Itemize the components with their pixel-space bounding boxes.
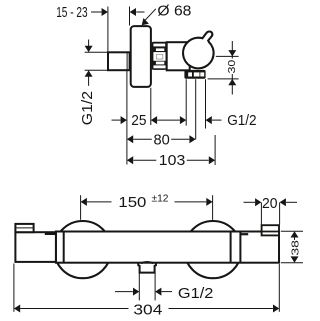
- leader line Ø 68: [144, 9, 156, 21]
- extension lines outlet thread: [185, 79, 187, 125]
- dim 25: [112, 119, 121, 121]
- svg-text:G1/2: G1/2: [178, 286, 214, 302]
- svg-text:304: 304: [133, 303, 162, 319]
- svg-text:±12: ±12: [152, 193, 169, 205]
- dim 103: [127, 156, 133, 164]
- dim 80: [127, 135, 133, 143]
- dim G1/2 left: extension lines: [85, 51, 107, 53]
- dim 304: extension lines: [13, 264, 15, 312]
- dim G1/2 bottom: extension lines: [138, 273, 140, 301]
- bar body: [56, 232, 279, 263]
- dim 15-23 left shaft and arrow: [91, 11, 102, 13]
- bar top edge across fitting: [261, 231, 280, 233]
- handle grip tab: [15, 224, 33, 232]
- handle index dash right: [240, 233, 248, 235]
- dim G1/2 left: lower line + up arrow: [85, 70, 93, 76]
- dim 30: line + arrows: [231, 41, 233, 56]
- escutcheon plate (rosette, side): [131, 26, 151, 87]
- dim 15-23 left extension line: [107, 7, 109, 52]
- dim 150 line + arrows: [81, 198, 87, 206]
- dim 15-23 right arrow and shaft: [130, 8, 136, 16]
- svg-text:G1/2: G1/2: [227, 113, 256, 129]
- extension line left shared (25/80/103): [126, 71, 128, 165]
- leader arrowhead Ø 68: [142, 18, 149, 25]
- handle circle with tab: [183, 31, 214, 68]
- temperature handle (left): [15, 232, 56, 262]
- svg-text:30: 30: [227, 59, 238, 73]
- dim 20 arrows + text: [244, 201, 256, 203]
- knurled union nut: [152, 42, 167, 70]
- svg-text:Ø 68: Ø 68: [157, 4, 191, 20]
- left rosette circle: [54, 221, 111, 278]
- shared shaft between 25 and G1/2: [157, 119, 180, 121]
- outlet nut (ribbed): [184, 70, 205, 79]
- svg-text:150: 150: [118, 195, 146, 211]
- inlet square inner edge: [126, 52, 128, 70]
- svg-text:G1/2: G1/2: [80, 91, 96, 125]
- inlet square (S-union): [108, 52, 130, 70]
- svg-text:103: 103: [159, 153, 186, 169]
- dim 38 line + arrows: [291, 231, 299, 237]
- handle index dash left: [45, 233, 56, 235]
- escutcheon seam left: [63, 232, 65, 263]
- dim 150 +-12: extension lines: [80, 195, 82, 220]
- svg-text:80: 80: [154, 132, 170, 148]
- dim 304 line + arrows: [14, 305, 20, 313]
- dim G1/2 left: upper line + down arrow: [88, 40, 90, 52]
- dim G1/2 right arrow: [206, 116, 212, 124]
- valve body: [167, 42, 190, 70]
- extension line 103 right: [214, 135, 216, 165]
- dim G1/2 bottom arrows: [115, 291, 133, 293]
- svg-text:38: 38: [290, 239, 301, 255]
- svg-text:20: 20: [262, 196, 278, 212]
- dim 20: extension lines: [260, 203, 262, 225]
- wall union fitting (right): [262, 225, 279, 235]
- extension line plate front (25 right): [150, 88, 152, 125]
- escutcheon seams right: [230, 232, 232, 263]
- outlet stub (bottom centre): [138, 263, 156, 272]
- svg-text:15 - 23: 15 - 23: [56, 5, 87, 21]
- dim 38: extension lines: [281, 230, 303, 232]
- svg-text:25: 25: [131, 113, 146, 129]
- right rosette circle: [184, 221, 241, 278]
- dim 15-23 right extension line: [129, 7, 131, 26]
- dim 30: extension lines: [216, 55, 239, 57]
